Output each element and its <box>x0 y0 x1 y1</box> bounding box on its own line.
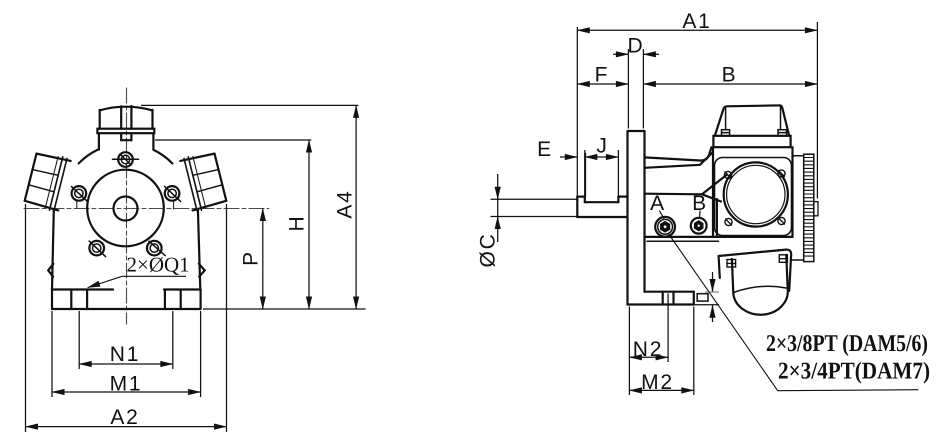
ext M2 right <box>693 307 695 396</box>
flange bolt TL <box>724 171 731 178</box>
ext baseline right <box>203 308 366 310</box>
dim D right arrow <box>643 53 659 55</box>
flange bolt BL <box>725 218 732 225</box>
body outer circle arc right segment <box>154 150 173 164</box>
svg-text:ØC: ØC <box>477 232 500 267</box>
dim A1 <box>577 29 817 31</box>
ext A1 left <box>576 27 578 196</box>
foot dim arrow bottom <box>712 305 714 322</box>
ext E right / J left <box>584 150 586 196</box>
annotation leader <box>668 233 918 391</box>
leader 2xQ1 <box>88 276 186 287</box>
arm top contour <box>645 147 712 160</box>
dim J <box>585 156 619 158</box>
pipe bottom <box>577 216 627 218</box>
dim E arrow <box>560 156 577 158</box>
base top edge right segment <box>164 288 201 290</box>
svg-text:B: B <box>692 192 708 215</box>
top port hex <box>100 106 153 129</box>
svg-text:2×3/4PT(DAM7): 2×3/4PT(DAM7) <box>778 359 930 385</box>
right side port <box>180 151 227 213</box>
pipe rim step right <box>617 197 619 203</box>
body lower second line <box>647 240 719 242</box>
svg-text:F: F <box>595 64 610 87</box>
wedge vertical <box>716 199 718 237</box>
svg-text:E: E <box>537 138 553 161</box>
mounting plate <box>628 131 645 305</box>
ribbed band <box>804 154 814 261</box>
flange bolt BR <box>778 217 785 224</box>
ext J right <box>617 150 619 196</box>
ext D left <box>627 49 629 129</box>
foot bottom <box>628 303 694 305</box>
dim B <box>643 83 817 85</box>
ext A2 right <box>226 204 228 432</box>
svg-text:M1: M1 <box>110 373 143 396</box>
wedge upper line <box>702 175 727 195</box>
bolt upper-right <box>165 186 181 209</box>
lower flange <box>719 250 792 291</box>
dim C top arrow <box>497 187 499 199</box>
base left edge <box>51 290 53 310</box>
pipe top rim left <box>577 196 585 198</box>
centerline vertical left view <box>126 88 128 324</box>
ext A2 left <box>25 204 27 432</box>
ribs <box>804 158 814 257</box>
dim F <box>577 83 628 85</box>
foot top <box>645 291 694 293</box>
dim M1 <box>52 391 201 393</box>
ext A1 right <box>816 22 818 199</box>
ext M1 right <box>200 311 202 397</box>
body outer circle arc left segment <box>79 150 98 164</box>
diaphragm inner circle <box>727 165 785 223</box>
dim P <box>262 209 264 310</box>
label A leader <box>660 211 664 218</box>
bonnet dome <box>715 105 789 135</box>
base top edge left segment <box>52 288 113 290</box>
svg-text:M2: M2 <box>641 371 674 394</box>
ext M1 left <box>51 311 53 397</box>
flange square <box>715 158 792 236</box>
lower flange bolt right <box>779 255 787 262</box>
left ear <box>48 264 53 277</box>
svg-text:2×ØQ1: 2×ØQ1 <box>127 253 190 277</box>
svg-text:D: D <box>628 35 645 58</box>
top port collar <box>97 129 154 134</box>
foot slot <box>663 292 674 305</box>
diaphragm circle <box>724 162 788 226</box>
svg-text:H: H <box>286 215 309 232</box>
ext N1 left <box>78 311 80 369</box>
band nub <box>814 202 818 216</box>
bolt top <box>113 152 139 167</box>
dim N2 <box>629 356 668 358</box>
top port neck <box>99 133 153 149</box>
flange inner circle <box>87 170 164 247</box>
bolt lower-right <box>147 241 165 256</box>
centerline horizontal left view <box>24 208 269 210</box>
pipe rim step left <box>584 197 586 203</box>
ext H top <box>155 139 311 141</box>
svg-text:A1: A1 <box>682 10 711 33</box>
ext D right <box>642 49 644 129</box>
foot right edge <box>693 292 695 305</box>
bottom cup right side <box>786 255 787 290</box>
dim N1 <box>79 363 173 365</box>
arm second contour <box>645 153 713 168</box>
lower flange bolt left <box>727 260 736 268</box>
base right edge <box>200 290 202 310</box>
ext C bottom <box>491 216 577 218</box>
band connector bottom <box>791 259 804 261</box>
band connector top <box>793 155 804 157</box>
right ear <box>199 264 205 277</box>
pipe recess top <box>585 201 619 203</box>
base slot right <box>165 290 181 310</box>
main block left edge <box>712 147 714 237</box>
ext C top <box>491 198 577 200</box>
dim C line <box>497 174 499 242</box>
center hole <box>114 197 138 221</box>
bottom cup rim arc <box>734 286 787 292</box>
svg-text:J: J <box>596 135 608 158</box>
bottom cup bottom arc <box>733 290 788 315</box>
label B leader <box>699 211 701 217</box>
arm mid line <box>645 193 703 196</box>
dim D left arrow <box>613 53 628 55</box>
ext N2 right <box>667 294 669 363</box>
dim A2 <box>26 426 227 428</box>
svg-text:A2: A2 <box>110 406 139 429</box>
svg-text:N2: N2 <box>633 338 663 361</box>
dim H <box>308 140 310 309</box>
base bottom edge <box>52 308 201 310</box>
bolt upper-left <box>71 186 87 208</box>
svg-text:A: A <box>650 192 666 215</box>
port A circle <box>655 217 675 237</box>
main block right edge <box>791 147 793 237</box>
left side port <box>24 151 71 213</box>
foot height ext <box>705 291 719 293</box>
body right side line <box>198 209 200 289</box>
ext N2 left <box>628 307 630 396</box>
pipe top rim right <box>618 196 627 198</box>
bonnet post left <box>722 130 730 136</box>
svg-text:2×3/8PT (DAM5/6): 2×3/8PT (DAM5/6) <box>766 331 928 357</box>
ext A4 top <box>141 104 358 106</box>
foot dim arrow top <box>712 272 714 292</box>
flange bolt TR <box>778 170 785 177</box>
pipe rim tab bold line <box>584 154 586 197</box>
dim M2 <box>629 389 693 391</box>
body left side line <box>52 210 54 290</box>
bolt lower-left <box>89 241 105 257</box>
bonnet inner left line <box>725 108 727 130</box>
body bottom line <box>645 236 793 238</box>
ext N1 right <box>172 311 174 369</box>
pipe left cap <box>576 197 578 217</box>
base slot left <box>71 290 87 310</box>
dim C bottom arrow <box>497 217 499 230</box>
bottom cup left side <box>732 259 733 294</box>
port B circle <box>691 218 707 234</box>
svg-text:N1: N1 <box>110 343 140 366</box>
svg-text:B: B <box>722 64 738 87</box>
cap plate <box>713 136 790 147</box>
bonnet post right <box>778 130 787 136</box>
foot height ext2 <box>695 304 719 306</box>
svg-text:A4: A4 <box>334 189 357 218</box>
bonnet inner right line <box>780 106 782 130</box>
dim A4 <box>355 105 357 309</box>
wedge lower line <box>702 194 721 201</box>
foot pad <box>697 294 708 301</box>
svg-text:P: P <box>240 250 263 266</box>
